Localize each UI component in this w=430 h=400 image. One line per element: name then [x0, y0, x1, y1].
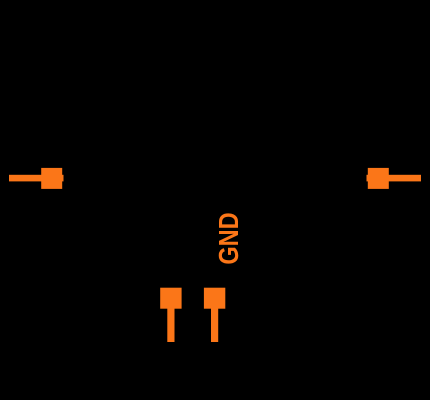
pin 1 (left) wire: [9, 175, 64, 182]
pin 4 (bottom-right GND) pad: [204, 288, 225, 309]
pin 4 (bottom-right GND) wire: [211, 309, 218, 343]
pin 2 (right) wire: [367, 175, 422, 182]
pin 2 (right) pad: [368, 168, 389, 189]
pin 3 (bottom-left GND) pad: [160, 288, 181, 309]
pin 1 (left) pad: [41, 168, 62, 189]
pin 3 (bottom-left GND) wire: [167, 309, 174, 343]
svg-text:GND: GND: [213, 212, 244, 264]
